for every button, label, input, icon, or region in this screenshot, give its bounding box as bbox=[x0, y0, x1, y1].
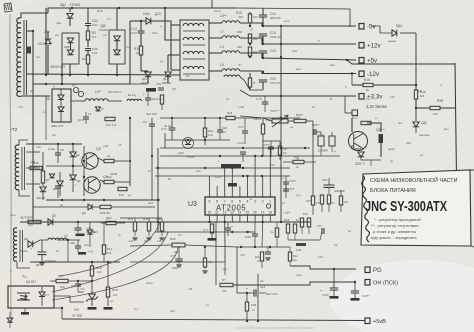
wire box to bus bbox=[50, 308, 62, 319]
wire feed ladder bbox=[134, 218, 136, 222]
wire +5vB bus bbox=[62, 319, 365, 321]
wire y148 long bbox=[160, 147, 310, 149]
wire vertical x152 bbox=[151, 134, 153, 200]
junction R48 column bbox=[415, 84, 417, 86]
resistor R14 bbox=[102, 245, 105, 254]
diode 2D6 inside box bbox=[114, 36, 120, 41]
wire y222 bus bbox=[155, 221, 310, 223]
black bar above IC 1 bbox=[221, 164, 241, 169]
wire -5v rail bbox=[240, 23, 356, 26]
resistor R1U bbox=[105, 117, 115, 120]
wire -12v rail bbox=[240, 71, 356, 74]
transformer T5 main box bbox=[180, 20, 209, 80]
diode D4 bbox=[57, 181, 63, 186]
capacitor C11a bbox=[262, 102, 268, 104]
resistor R3 on T2 bbox=[30, 166, 42, 169]
capacitor C30 bbox=[85, 49, 91, 51]
wire x225 below bbox=[224, 262, 226, 275]
capacitor C5 bbox=[55, 153, 61, 155]
capacitor C25** bbox=[314, 129, 316, 135]
wire vertical x158 left of IC bbox=[157, 148, 159, 232]
wire y240 right bbox=[288, 239, 320, 241]
wire -5v to diode bbox=[371, 26, 392, 33]
zener D15 bbox=[87, 230, 93, 234]
wire Q5 collector bbox=[98, 158, 104, 161]
transformer T1 core bbox=[23, 20, 25, 95]
wire x281 to -5v bbox=[280, 26, 282, 33]
resistor R17c bbox=[361, 121, 371, 124]
terminal -12v bbox=[359, 71, 364, 77]
fuse box bbox=[28, 220, 41, 223]
capacitor C25 bbox=[259, 34, 267, 36]
resistor R13 bbox=[248, 14, 251, 23]
capacitor C71 bbox=[175, 259, 182, 261]
capacitor C34** bbox=[283, 182, 289, 184]
transistor Q6 bbox=[84, 177, 100, 193]
resistor ladder 3 bbox=[160, 222, 163, 231]
resistor R16 bbox=[139, 46, 142, 55]
diode A* mark bbox=[95, 107, 100, 111]
wire Q8 block loop bbox=[351, 118, 353, 132]
wire x281 long vertical bbox=[280, 33, 282, 96]
wire y262 mid bbox=[130, 261, 225, 263]
resistor R18 bbox=[248, 47, 251, 56]
capacitor C11 cluster bbox=[83, 117, 89, 119]
junction near opto bbox=[61, 307, 63, 309]
wire y185 hor bbox=[75, 184, 76, 186]
capacitor C10 star bbox=[225, 228, 231, 230]
wire x224 down bbox=[224, 222, 226, 262]
wire T2 taps bbox=[26, 151, 40, 153]
capacitor C18 big bbox=[38, 252, 47, 255]
wire +3.3v rail bbox=[250, 95, 356, 97]
wire box2 bottom to bus bbox=[116, 64, 118, 75]
optocoupler LED arrows bbox=[17, 293, 30, 301]
inductor L5 bbox=[222, 21, 240, 23]
wire L3 row bbox=[71, 100, 85, 102]
transformer T5 winding 1 bbox=[183, 23, 204, 26]
transformer T5 winding 2 bbox=[183, 37, 204, 40]
capacitor C13b bbox=[74, 228, 81, 230]
capacitor C34 bbox=[240, 152, 246, 154]
resistor ladder 2 bbox=[147, 222, 150, 231]
transistor pair mark Q2 bbox=[73, 87, 78, 92]
terminal ON bbox=[365, 280, 370, 286]
wire Q6 collector bbox=[100, 180, 104, 182]
optocoupler U4 box bbox=[8, 286, 54, 308]
inductor L2 bbox=[48, 238, 67, 240]
wire x215 down bbox=[215, 222, 217, 285]
inductor L3 bbox=[85, 99, 108, 101]
capacitor C16 bbox=[254, 289, 256, 296]
resistor pair R1b bbox=[320, 195, 323, 204]
transformer T5 winding 4 bbox=[183, 66, 204, 69]
capacitor C42 bbox=[322, 228, 324, 234]
wire +3.3v from caps bbox=[240, 90, 250, 96]
wire +12v rail bbox=[240, 38, 356, 44]
diode 2D5 inside box bbox=[67, 38, 73, 43]
wire y108 to right edge bbox=[416, 107, 430, 109]
capacitor C6 bbox=[55, 186, 61, 188]
capacitor C9 bbox=[149, 124, 155, 126]
diode bottom-left corner bbox=[7, 318, 13, 322]
wire y166 mid bbox=[46, 165, 82, 167]
wire box to TL431 bbox=[54, 296, 84, 302]
zener ZD2 bbox=[358, 152, 364, 157]
black cap mark bbox=[296, 243, 306, 246]
fan connector Cooler box 1 bbox=[318, 136, 324, 146]
transformer T2 frame wire bbox=[19, 140, 28, 145]
transformer T4 box bbox=[52, 89, 71, 122]
capacitor C black bar bbox=[379, 134, 384, 143]
IC bottom pin stubs bbox=[209, 215, 211, 222]
resistor pair R49 R50 bbox=[286, 224, 289, 233]
capacitor C31 bbox=[145, 98, 151, 100]
resistor R55 bbox=[430, 106, 440, 109]
resistor R13c 800 bbox=[261, 124, 264, 134]
diode D9a inside bbox=[58, 95, 64, 100]
wire T5 left leads bbox=[171, 24, 180, 26]
resistor R10k bbox=[339, 196, 342, 205]
terminal PG bbox=[365, 267, 370, 273]
wire x46 mid vertical bbox=[45, 96, 47, 140]
rectifier box 2D5 bbox=[62, 33, 79, 64]
resistor R20 bbox=[248, 78, 251, 87]
transformer T2 winding left bbox=[15, 145, 19, 190]
wire y176 hor bbox=[155, 175, 290, 177]
wire PG line bbox=[290, 266, 356, 269]
corner hatch mark top-left bbox=[4, 3, 12, 12]
wire driver top y144 bbox=[26, 143, 82, 145]
transformer T5 winding 3 bbox=[183, 51, 204, 54]
capacitor C74 bbox=[169, 128, 176, 130]
transformer T2 core bbox=[21, 147, 23, 190]
junction top bus bbox=[71, 7, 73, 9]
wire y262 bus bbox=[30, 261, 120, 263]
wire IC pin8 up bbox=[216, 186, 218, 190]
resistor R2 bbox=[86, 31, 89, 40]
capacitor C32 bbox=[85, 24, 91, 26]
capacitor C14 bbox=[138, 31, 145, 33]
resistor R37 47k bbox=[220, 283, 233, 286]
zener U26 TL431 bbox=[185, 140, 191, 145]
capacitor C7E cluster bbox=[158, 88, 164, 90]
potentiometer R17* bbox=[272, 119, 288, 123]
op-amp U3 AT2005 IC box bbox=[205, 197, 275, 215]
capacitor C7b polarized bbox=[242, 131, 248, 133]
fan connector Cooler box 2 bbox=[329, 136, 335, 146]
inductor L7 bbox=[222, 36, 240, 38]
capacitor C43 bbox=[259, 51, 267, 53]
wire y168 hor bbox=[155, 167, 290, 169]
wire IC pin7 up bbox=[224, 168, 226, 190]
wire box1 bottom to bus bbox=[69, 64, 71, 75]
resistor R12c bbox=[288, 252, 291, 261]
diode D8 bbox=[28, 241, 33, 247]
wire T1 tap y31 bbox=[27, 30, 33, 32]
wire y262 left bbox=[67, 240, 69, 262]
resistor R13star bbox=[90, 266, 93, 276]
resistor R41 bbox=[203, 128, 206, 137]
zener ZD5 2D5 bbox=[415, 108, 417, 121]
wire y247 bus bbox=[130, 245, 172, 246]
terminal -5v bbox=[359, 24, 364, 30]
wire sweep curve 3 bbox=[52, 247, 178, 300]
resistor R28 bbox=[245, 302, 248, 311]
wire x237 vertical bbox=[236, 247, 238, 293]
diode 5D2 bbox=[67, 14, 73, 19]
rectifier box 2D6 bbox=[109, 30, 125, 64]
wire top tick bbox=[211, 0, 213, 8]
transformer T5 core lines bbox=[183, 30, 205, 32]
resistor R9 bbox=[86, 55, 89, 64]
wire ON line bbox=[233, 282, 356, 285]
resistor R45 bbox=[41, 171, 44, 183]
resistor R16** bbox=[294, 119, 306, 122]
diode D12 bbox=[165, 72, 171, 77]
capacitor C13c gnd bbox=[351, 291, 359, 293]
wire y140 hor bbox=[165, 139, 230, 141]
wire diode to vertical bbox=[400, 32, 416, 34]
title block left decoration bbox=[362, 176, 370, 242]
capacitor C7e bbox=[75, 284, 81, 286]
transformer T1 winding bbox=[17, 18, 21, 97]
wire y156 long bbox=[160, 155, 340, 157]
capacitor C44 gnd cluster bbox=[75, 246, 81, 248]
wire vertical x130 mid bbox=[129, 118, 131, 186]
wire sweep curve 1 bbox=[60, 222, 160, 276]
resistor R42 2k bbox=[293, 160, 304, 163]
wire IC pin1 up bbox=[269, 148, 271, 190]
wire diode 5D2 to box bbox=[69, 8, 71, 12]
wire top bus y8 bbox=[48, 8, 237, 13]
capacitor C12 gnd bbox=[330, 288, 338, 290]
junction dots rails bbox=[249, 25, 251, 27]
terminal +5v bbox=[359, 58, 364, 64]
wire cooler leads bbox=[312, 121, 314, 132]
terminal 3.3v sense bbox=[352, 110, 358, 116]
zener U2 TL431 bbox=[89, 294, 96, 299]
wire y232 bus bbox=[155, 231, 255, 233]
diode D7 small bbox=[49, 174, 54, 178]
zener ZD1 20v bbox=[45, 39, 51, 44]
wire bus y75 long bbox=[27, 74, 180, 75]
diode D2 bbox=[70, 152, 76, 157]
resistor R36 bbox=[118, 187, 127, 190]
resistor R16b 6k bbox=[363, 83, 373, 86]
optocoupler zener element bbox=[39, 292, 45, 297]
resistor R11 bbox=[275, 228, 278, 237]
wire x48 vertical bbox=[47, 52, 49, 75]
vertical resistors ladder left bbox=[133, 222, 136, 231]
wire y63 branch to right corner bbox=[347, 60, 455, 64]
wire IC pin4 up bbox=[247, 176, 249, 190]
capacitor C12a bbox=[252, 234, 258, 236]
wire T1 tap y50 with core bar bbox=[27, 49, 28, 51]
resistor R22 bbox=[260, 252, 263, 261]
diode D13 bbox=[146, 18, 151, 24]
wire y141 bbox=[263, 140, 280, 142]
resistor R38 bbox=[203, 258, 206, 267]
wire vertical x33 bbox=[32, 31, 34, 110]
wire vertical x46 bbox=[45, 8, 47, 75]
title block frame bbox=[361, 170, 471, 246]
wire pot row bbox=[240, 116, 272, 121]
resistor DES on y222 bbox=[106, 221, 116, 224]
wire x313 long vertical bbox=[312, 132, 314, 196]
wire T5 right leads bbox=[209, 22, 222, 24]
resistor R24 bbox=[226, 116, 235, 119]
capacitor C41 bbox=[259, 15, 267, 17]
diode D6 bbox=[88, 204, 92, 210]
transistor Q8 bbox=[349, 132, 368, 151]
wire x258 vertical to bus bbox=[257, 274, 259, 321]
wire y84 left part2 bbox=[130, 83, 148, 85]
resistor R15star bbox=[106, 287, 109, 297]
diode D11 bbox=[145, 72, 151, 77]
capacitor C40 bbox=[259, 80, 267, 82]
resistor R33 bbox=[104, 180, 114, 183]
capacitor C70** bbox=[268, 147, 274, 149]
inductor L3a bbox=[222, 51, 240, 53]
transformer T3 core bbox=[19, 230, 21, 262]
zener 7D5 bbox=[40, 187, 46, 192]
resistor RV bbox=[160, 95, 163, 104]
resistor R47 10k bbox=[278, 146, 281, 155]
wire +5v rail bbox=[240, 53, 356, 60]
wire IC pin5 up bbox=[239, 186, 241, 190]
resistor pair R51 R52 bbox=[300, 218, 303, 227]
IC top pin stubs bbox=[209, 190, 211, 197]
wire IC pin9 up bbox=[209, 176, 211, 190]
ground bar under box bbox=[21, 312, 29, 315]
wire bus y84 bbox=[33, 21, 130, 84]
wire sense lead bbox=[345, 112, 352, 114]
resistor R35 bbox=[172, 243, 185, 247]
resistor R31b bbox=[104, 159, 114, 162]
wire y118 right part bbox=[160, 117, 226, 119]
resistor R17 bbox=[248, 34, 251, 43]
wire D13 row bbox=[130, 20, 146, 22]
wire y200 long bbox=[46, 199, 160, 201]
inductor L4U bbox=[127, 99, 141, 101]
transformer T3 winding bbox=[13, 228, 17, 261]
wire T3 bottom bbox=[17, 262, 30, 268]
terminal +5vB bbox=[365, 318, 370, 324]
wire IC pin2 up bbox=[262, 176, 264, 190]
wire box2 top to bus bbox=[116, 8, 118, 30]
scan edge line left bbox=[10, 14, 11, 322]
diode 5D4 bbox=[392, 30, 397, 36]
wire T1 bottom tap bbox=[21, 95, 50, 97]
terminal +12v bbox=[359, 43, 364, 49]
resistor R48 6k8 bbox=[414, 90, 417, 99]
wire y240 bbox=[33, 240, 48, 244]
terminal +3.3v bbox=[359, 94, 364, 100]
wire driver mid vertical x84 bbox=[83, 146, 85, 196]
dark bar R40 bbox=[146, 88, 156, 92]
wire vertical x416 bbox=[415, 33, 417, 85]
capacitor C26 bbox=[217, 130, 223, 132]
wire x33 long vertical bbox=[32, 110, 34, 222]
inductor L6 second winding bbox=[224, 75, 240, 77]
diode D9 bbox=[48, 219, 53, 225]
diode D3 bbox=[70, 175, 76, 180]
wire sweep curve 2 bbox=[52, 232, 168, 292]
wire x62 segment bbox=[61, 64, 63, 84]
wire y222 left bus bbox=[20, 221, 155, 223]
wire vertical right x459 bbox=[455, 63, 457, 212]
diode D9b inside bbox=[58, 107, 64, 112]
wire PG from ladder bbox=[289, 265, 291, 267]
wire y293 link bbox=[237, 292, 251, 294]
resistor R27 510 bbox=[56, 279, 68, 282]
wire IC pin6 up bbox=[231, 168, 233, 190]
wire IC pin3 up bbox=[254, 156, 256, 190]
capacitor C19 right of IC bbox=[283, 189, 289, 191]
resistor R32 below pin10 bbox=[210, 224, 213, 233]
wire bottom driver y207 bbox=[33, 206, 88, 208]
inductor L6 bbox=[222, 69, 240, 71]
transistor Q5 bbox=[82, 153, 98, 169]
resistor R39 bbox=[100, 205, 111, 208]
black bar above IC 2 bbox=[228, 183, 237, 187]
resistor R7y bbox=[311, 196, 314, 205]
capacitor C15 gnd caps bbox=[265, 252, 271, 254]
capacitor C2b big bbox=[324, 185, 335, 187]
